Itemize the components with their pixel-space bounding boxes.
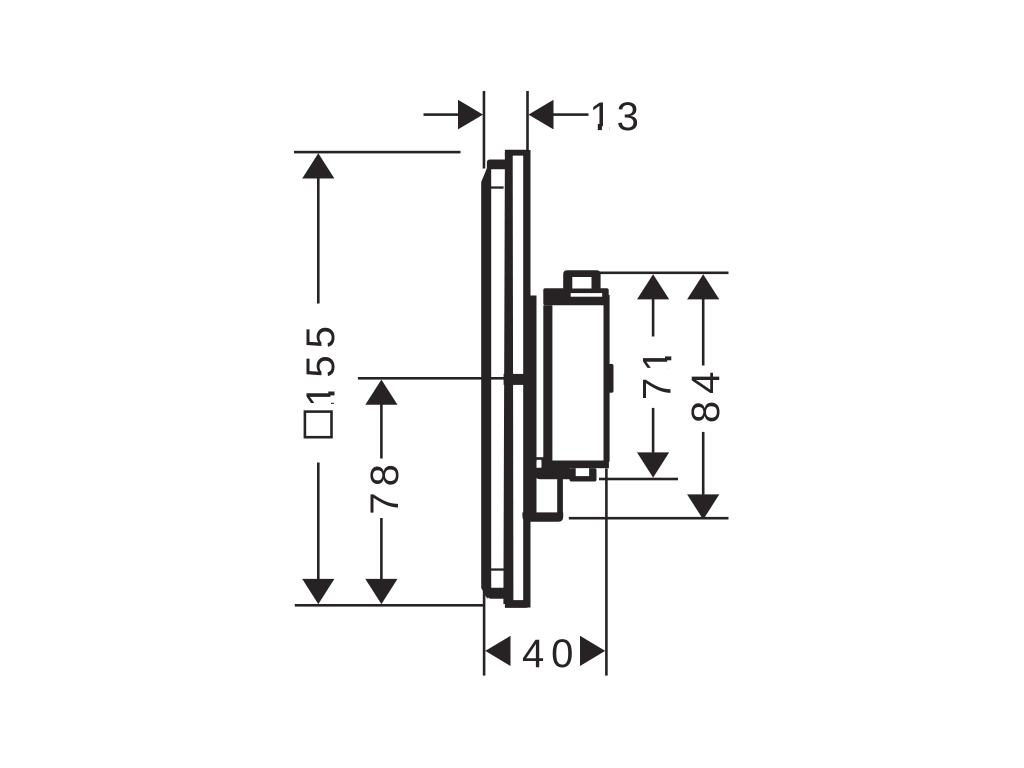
wire: dim 40 left extension line xyxy=(483,589,486,676)
node: spindle bridge at centerline xyxy=(504,374,525,385)
node: outlet stem xyxy=(557,479,563,514)
wire: dim 155 down arrow xyxy=(302,579,334,604)
wire: dim 78 line lower segment xyxy=(380,518,383,581)
node: square symbol of dim 155 xyxy=(305,412,332,438)
wire: dim 155 line lower segment xyxy=(317,463,320,581)
wire: dim 71 down arrow xyxy=(637,452,669,477)
wire: dim 13 right arrow xyxy=(529,100,554,130)
wire: dim 155 line upper segment xyxy=(317,178,320,304)
wire: dim 13 left arrow xyxy=(458,100,483,130)
wire: dim 13 left tail xyxy=(424,113,460,116)
node: outlet foot xyxy=(522,512,563,521)
svg-text:40: 40 xyxy=(522,632,581,676)
wire: dim 13 left extension line xyxy=(483,91,486,169)
transistor: top stop screw tab xyxy=(563,270,600,292)
node: outlet elbow shoulder xyxy=(535,468,570,480)
svg-text:155: 155 xyxy=(299,319,343,407)
wire: dim 40 right arrow xyxy=(580,636,605,666)
node: flange inner white sliver xyxy=(571,293,603,297)
node: plate middle bar xyxy=(503,152,513,604)
wire: dim 78 up arrow xyxy=(365,380,397,405)
wire: dim 84 bottom extension line xyxy=(569,517,729,520)
wire: dim 71 line lower segment xyxy=(652,408,655,453)
wire: dim 155 top extension line xyxy=(294,151,461,154)
wire: dim 84 down arrow xyxy=(687,494,719,519)
node: left plate bottom cap xyxy=(487,588,508,599)
node: right plate front edge xyxy=(523,150,530,608)
node: serif trim of digit 1 in 13 xyxy=(591,126,610,131)
wire: dim 84 up arrow xyxy=(687,274,719,299)
wire: dim 13 right tail xyxy=(554,113,589,116)
node: serif trim of digit 1 in 155 xyxy=(330,384,335,403)
svg-text:71: 71 xyxy=(636,344,680,401)
wire: dim 13 right extension line xyxy=(526,91,529,150)
node: wall-to-sleeve ledge xyxy=(535,457,544,461)
node: cartridge right wall xyxy=(604,295,610,462)
wire: dim 40 left arrow xyxy=(485,636,510,666)
svg-text:78: 78 xyxy=(363,458,407,515)
node: right wall bump xyxy=(609,364,614,393)
svg-text:84: 84 xyxy=(684,365,728,424)
transistor: bottom stop tab xyxy=(570,468,597,481)
wire: left plate inner top line xyxy=(491,186,504,188)
node: right plate top cap xyxy=(505,150,529,156)
wire: dim 71 up arrow xyxy=(637,274,669,299)
wire: dim 71 bottom extension line xyxy=(599,478,678,481)
wire: dim 40 right extension line xyxy=(605,469,608,676)
wire: dim 71 line upper segment xyxy=(652,299,655,337)
wire: dim 155 up arrow xyxy=(302,153,334,178)
wire: dim 78 down arrow xyxy=(365,579,397,604)
node: serif trim of digit 1 in 71 xyxy=(667,349,672,369)
node: cartridge bottom cap xyxy=(541,461,609,469)
node: sliver notch left of bottom cap xyxy=(537,460,542,468)
node: right plate bottom cap xyxy=(505,600,529,608)
wire: dim 155 bottom extension line xyxy=(295,604,484,607)
wire: left plate inner bottom line xyxy=(491,568,504,570)
node: left plate top cap xyxy=(487,160,506,170)
wire: dims 71/84 top extension line xyxy=(600,272,729,275)
wire: dim 84 line lower segment xyxy=(702,432,705,495)
node: function unit sleeve xyxy=(530,296,537,518)
node: left plate back edge xyxy=(481,168,491,599)
node: cartridge left wall xyxy=(543,305,552,461)
node: cartridge top flange xyxy=(543,288,608,305)
svg-text:13: 13 xyxy=(589,95,644,139)
wire: dim 84 line upper segment xyxy=(702,299,705,366)
wire: dim 78 line upper segment xyxy=(380,404,383,459)
wire: dim 78 centerline extension xyxy=(358,377,504,380)
